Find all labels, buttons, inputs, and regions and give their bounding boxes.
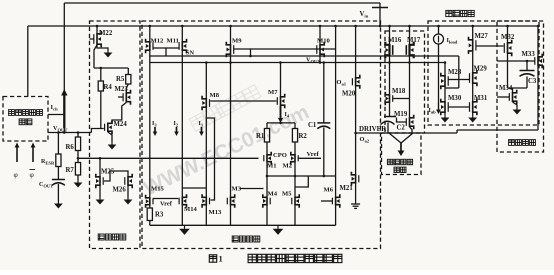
funnel to ground symbol (389, 133, 401, 143)
wire gate tap to SN (250, 49, 252, 56)
svg-text:M12: M12 (151, 38, 165, 45)
svg-text:CPO: CPO (273, 152, 287, 159)
wire tail node (266, 163, 268, 177)
wire VDD rail (28, 25, 540, 27)
wire Vout node (48, 132, 91, 134)
wire bottom bus (150, 224, 336, 226)
transistor M1 (266, 142, 268, 154)
overcurrent protection dashed box (guoliu baohu) (497, 21, 544, 152)
svg-text:M31: M31 (474, 95, 488, 102)
svg-text:R5: R5 (116, 76, 125, 83)
wire second stage bus (150, 62, 445, 64)
svg-text:M6: M6 (324, 187, 334, 194)
svg-text:M22: M22 (99, 30, 113, 37)
label overcurrent protection (509, 140, 515, 146)
node Vin junction (379, 25, 382, 28)
svg-text:M29: M29 (474, 66, 488, 73)
ground under M34 (513, 102, 518, 107)
transistor M7 (280, 63, 282, 97)
resistor R1 (266, 123, 268, 129)
ground under M26 (127, 186, 129, 197)
svg-text:I4: I4 (285, 112, 290, 119)
ground under M21 (355, 184, 357, 202)
svg-text:I2: I2 (174, 121, 179, 128)
ground under M22 (97, 45, 108, 50)
svg-text:M20: M20 (342, 91, 356, 98)
wire top supply (64, 2, 380, 4)
svg-text:VOUT: VOUT (306, 57, 320, 65)
ground under R7 (77, 175, 79, 180)
wire M8 branch to M13 gate (206, 118, 214, 200)
svg-text:M10: M10 (317, 38, 331, 45)
wire M12 M11 gate tie (153, 47, 179, 49)
svg-text:M34: M34 (499, 85, 513, 92)
svg-text:Vref: Vref (160, 201, 173, 208)
svg-text:M11: M11 (167, 38, 179, 45)
transistor M11 (181, 26, 183, 41)
current source Iload (438, 26, 440, 34)
svg-text:RESR: RESR (41, 159, 55, 166)
transistor M15 (149, 63, 151, 198)
transistor M29 (472, 72, 474, 84)
wire M19 gate (397, 118, 407, 123)
transistor M19 (409, 63, 411, 118)
label startup box (98, 234, 104, 240)
svg-text:M14: M14 (184, 206, 198, 213)
wire M27 gate to M32 gate (476, 45, 504, 47)
svg-text:Vref: Vref (307, 151, 320, 158)
transistor M9 (230, 26, 232, 44)
transistor M28 (444, 63, 446, 76)
current arrow Ich (63, 95, 65, 129)
transistor M34 (512, 88, 514, 92)
wire M14 M13 top link (182, 187, 206, 189)
label current sampling (446, 10, 452, 16)
resistor Resr (57, 133, 59, 155)
transistor M33 (537, 26, 539, 56)
wire M27 drain column (472, 52, 474, 72)
transistor M20 (355, 26, 357, 77)
ground under bus right (277, 225, 279, 229)
transistor M14 (181, 56, 183, 197)
svg-text:M8: M8 (210, 92, 220, 99)
charge pump module dashed box (3, 97, 48, 142)
transistor M25 (99, 158, 101, 176)
svg-text:M2: M2 (283, 163, 293, 170)
svg-text:R1: R1 (256, 133, 265, 140)
resistor R2 (294, 123, 296, 129)
transistor M5 (294, 176, 296, 197)
caption figure 1 (209, 255, 216, 262)
resistor R3 (149, 206, 151, 209)
svg-text:R3: R3 (155, 212, 164, 219)
svg-text:M16: M16 (388, 37, 402, 44)
wire Vref gate tie (153, 198, 178, 200)
svg-text:M32: M32 (501, 34, 515, 41)
svg-text:M15: M15 (151, 186, 165, 193)
resistor R7 (77, 158, 79, 162)
transistor M27 (472, 26, 474, 39)
svg-text:M1: M1 (267, 163, 277, 170)
svg-text:M4: M4 (268, 191, 278, 198)
transistor M32 (507, 26, 509, 42)
svg-text:1: 1 (219, 254, 223, 264)
wire M28 drain to M30 (444, 87, 446, 101)
transistor M4 (266, 176, 268, 197)
svg-text:Ich: Ich (51, 104, 59, 112)
wire feedback to M1 gate (78, 157, 259, 159)
wire Iload down / Iab arrow (438, 44, 440, 103)
ground under bus left (184, 225, 186, 229)
wire M32 drain column (507, 54, 509, 88)
svg-text:φ: φ (30, 170, 35, 179)
wire M33 drain down (537, 66, 539, 130)
wire driver output (356, 132, 457, 134)
svg-text:M17: M17 (407, 37, 421, 44)
ground under M30 (444, 113, 446, 115)
transistor M17 (409, 26, 411, 44)
wire M28 M29 gates to SN (448, 79, 459, 81)
svg-text:R2: R2 (299, 133, 308, 140)
wire M23 drain to M24 (112, 103, 126, 123)
transistor M21 (355, 174, 357, 184)
transistor M26 (104, 171, 128, 181)
transistor M22 (96, 26, 98, 33)
ground under M25 (99, 186, 101, 197)
svg-text:M7: M7 (268, 89, 278, 96)
transistor M23 (126, 84, 128, 92)
wire M16 M17 drains (389, 56, 391, 63)
transistor M2 (294, 142, 296, 154)
svg-text:M24: M24 (114, 121, 128, 128)
svg-text:DRIVER: DRIVER (359, 126, 387, 133)
svg-text:M9: M9 (232, 38, 242, 45)
resistor R4 (100, 68, 102, 81)
wire left drop to charge pump (27, 26, 29, 97)
svg-text:R6: R6 (66, 144, 75, 151)
transistor M12 (149, 26, 151, 41)
wire M22 drain down (94, 45, 97, 68)
svg-text:I1: I1 (199, 121, 204, 128)
capacitor C1 (323, 63, 325, 123)
svg-text:R7: R7 (66, 167, 75, 174)
wire node to M34 and C3 (508, 87, 528, 89)
wire M20 drain column (355, 87, 357, 175)
wire M9 drain (230, 55, 232, 63)
svg-text:C3: C3 (528, 78, 537, 85)
svg-text:C1: C1 (308, 122, 317, 129)
label dynamic freq compensation (387, 159, 392, 164)
transistor M8 (205, 63, 207, 99)
current sampling dashed box (dianliu caiyang) (428, 21, 539, 125)
svg-text:M28: M28 (448, 69, 462, 76)
clock phase arrow 2 (32, 147, 34, 163)
wire M18 gate (393, 98, 410, 100)
svg-text:M26: M26 (113, 187, 127, 194)
svg-text:Vin: Vin (360, 11, 369, 19)
svg-text:COUT: COUT (39, 182, 53, 189)
transistor M10 (319, 26, 321, 44)
ground under M31 (472, 113, 474, 115)
wire M3 M4 gate tie (240, 188, 264, 190)
transistor M13 (205, 197, 207, 206)
capacitor Cout (57, 167, 59, 180)
wire startup top node (94, 67, 128, 69)
transistor M24 (107, 123, 109, 133)
wire M8 drain column to M13 (205, 108, 207, 197)
transistor M3 (230, 197, 232, 206)
svg-text:φ: φ (14, 170, 19, 179)
charge pump module label (9, 110, 15, 116)
svg-text:M27: M27 (475, 33, 489, 40)
wire M5 gate jog (295, 176, 308, 187)
resistor R5 (127, 68, 129, 75)
wire M30 M31 gate tie (448, 106, 469, 108)
wire M9 column to M3 (230, 63, 232, 197)
wire charge pump output (48, 114, 64, 116)
svg-text:M13: M13 (209, 209, 223, 216)
power symbol Vin (379, 3, 381, 26)
transistor M18 (389, 63, 391, 95)
wire SN net (149, 51, 151, 56)
svg-text:C2: C2 (397, 125, 406, 132)
svg-text:M21: M21 (340, 185, 354, 192)
resistor R6 (77, 133, 79, 138)
watermark (189, 85, 261, 132)
wire M2 gate Vref (298, 157, 321, 159)
wire cascode column to M6 (335, 26, 337, 197)
capacitor C3 (526, 61, 528, 71)
capacitor C2 (389, 103, 391, 117)
svg-text:R4: R4 (104, 84, 113, 91)
wire M24 gate feedback (91, 129, 103, 133)
svg-text:M30: M30 (448, 95, 462, 102)
svg-text:M23: M23 (115, 86, 129, 93)
wire M9 M10 gate bar (234, 48, 336, 50)
svg-text:M25: M25 (101, 169, 115, 176)
wire M19 source down (410, 127, 413, 133)
wire M33 gate net (497, 60, 535, 62)
ground under M24 (108, 132, 112, 142)
svg-text:I3: I3 (152, 121, 157, 128)
svg-text:M5: M5 (282, 191, 292, 198)
dynamic freq compensation dashed box (382, 133, 422, 175)
current arrow I4 (280, 106, 282, 119)
wire M10 drain (319, 55, 321, 63)
svg-text:Iload: Iload (447, 37, 458, 45)
svg-text:M19: M19 (394, 111, 408, 118)
transistor M31 (472, 84, 474, 101)
svg-text:Oa1: Oa1 (337, 79, 347, 87)
wire Ich column (63, 3, 65, 133)
clock phase arrow 1 (16, 147, 18, 163)
wire M8 gate to M7 gate (210, 100, 276, 102)
svg-text:M33: M33 (522, 51, 536, 58)
transistor M16 (389, 26, 391, 44)
svg-text:SN: SN (186, 50, 194, 57)
label diff amp box (232, 236, 238, 242)
driver dashed box (385, 31, 425, 133)
startup-circuit dashed box (qidong dianlu) (90, 21, 141, 249)
diff-amp dashed box (chafen yunfang) (142, 21, 381, 249)
wire R1 R2 top (267, 122, 295, 124)
svg-text:Oa2: Oa2 (360, 136, 370, 144)
svg-text:Iab: Iab (429, 108, 437, 115)
svg-text:M18: M18 (392, 88, 406, 95)
ground under Cout (57, 184, 59, 201)
transistor M30 (444, 101, 446, 113)
transistor M6 (335, 197, 337, 206)
